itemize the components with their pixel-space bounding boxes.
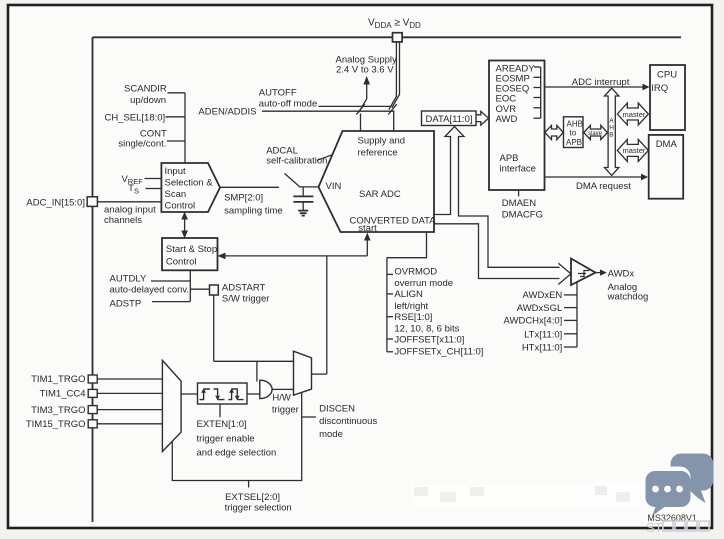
- svg-text:Control: Control: [165, 201, 196, 212]
- svg-text:trigger selection: trigger selection: [225, 503, 292, 514]
- svg-text:AWDxSGL: AWDxSGL: [517, 303, 563, 314]
- svg-text:mode: mode: [319, 429, 343, 440]
- svg-text:Start & Stop: Start & Stop: [166, 244, 217, 255]
- svg-text:DMA: DMA: [656, 139, 678, 150]
- svg-text:left/right: left/right: [394, 301, 428, 312]
- svg-text:AWDCHx[4:0]: AWDCHx[4:0]: [504, 316, 563, 327]
- svg-text:ADSTP: ADSTP: [110, 298, 142, 309]
- svg-text:Selection &: Selection &: [165, 178, 214, 189]
- svg-text:JOFFSETx_CH[11:0]: JOFFSETx_CH[11:0]: [394, 347, 483, 358]
- svg-text:AWD: AWD: [496, 114, 518, 125]
- svg-text:single/cont.: single/cont.: [118, 138, 166, 149]
- svg-text:channels: channels: [104, 215, 142, 226]
- svg-text:SMP[2:0]: SMP[2:0]: [224, 192, 263, 203]
- svg-text:auto-delayed conv.: auto-delayed conv.: [110, 284, 190, 295]
- svg-text:TIM1_CC4: TIM1_CC4: [40, 389, 86, 400]
- svg-text:AUTOFF: AUTOFF: [259, 87, 297, 98]
- svg-text:start: start: [358, 223, 377, 234]
- svg-text:and edge selection: and edge selection: [197, 448, 277, 459]
- svg-text:ST: ST: [646, 520, 663, 535]
- svg-text:Control: Control: [166, 257, 197, 268]
- svg-text:TIM3_TRGO: TIM3_TRGO: [31, 405, 85, 416]
- svg-text:OVRMOD: OVRMOD: [394, 267, 437, 278]
- svg-text:JOFFSET[x11:0]: JOFFSET[x11:0]: [394, 335, 464, 346]
- svg-text:DMAEN: DMAEN: [502, 198, 536, 209]
- svg-text:TIM15_TRGO: TIM15_TRGO: [26, 419, 86, 430]
- svg-text:H/W: H/W: [272, 393, 291, 404]
- svg-text:IRQ: IRQ: [651, 83, 668, 94]
- svg-text:DMACFG: DMACFG: [502, 210, 543, 221]
- svg-text:A: A: [609, 118, 614, 125]
- svg-text:VIN: VIN: [326, 181, 342, 192]
- svg-text:interface: interface: [500, 164, 536, 175]
- svg-text:AUTDLY: AUTDLY: [110, 273, 147, 284]
- svg-text:LTx[11:0]: LTx[11:0]: [524, 329, 562, 340]
- svg-text:overrun mode: overrun mode: [394, 278, 453, 289]
- svg-text:APB: APB: [566, 138, 582, 147]
- svg-text:AWDxEN: AWDxEN: [523, 290, 563, 301]
- svg-text:ALIGN: ALIGN: [394, 289, 423, 300]
- svg-text:watchdog: watchdog: [607, 292, 649, 303]
- svg-text:S/W trigger: S/W trigger: [222, 293, 270, 304]
- svg-text:Scan: Scan: [165, 189, 187, 200]
- svg-text:EXTSEL[2:0]: EXTSEL[2:0]: [225, 492, 280, 503]
- svg-text:12, 10, 8, 6 bits: 12, 10, 8, 6 bits: [394, 324, 459, 335]
- svg-text:discontinuous: discontinuous: [319, 416, 377, 427]
- svg-text:CPU: CPU: [657, 69, 677, 80]
- svg-text:AHB: AHB: [567, 120, 583, 129]
- svg-text:trigger enable: trigger enable: [197, 433, 255, 444]
- svg-text:ADC interrupt: ADC interrupt: [572, 77, 630, 88]
- svg-text:DISCEN: DISCEN: [319, 403, 355, 414]
- svg-text:DATA[11:0]: DATA[11:0]: [426, 114, 473, 125]
- svg-text:auto-off mode: auto-off mode: [259, 99, 317, 110]
- svg-text:RSE[1:0]: RSE[1:0]: [394, 312, 432, 323]
- svg-text:TIM1_TRGO: TIM1_TRGO: [31, 374, 85, 385]
- svg-text:slave: slave: [588, 131, 603, 137]
- svg-text:master: master: [623, 146, 646, 155]
- svg-text:Supply and: Supply and: [358, 136, 406, 147]
- svg-text:EXTEN[1:0]: EXTEN[1:0]: [197, 419, 247, 430]
- svg-text:ADC_IN[15:0]: ADC_IN[15:0]: [26, 197, 85, 208]
- svg-text:sampling time: sampling time: [224, 205, 283, 216]
- svg-text:trigger: trigger: [272, 404, 299, 415]
- svg-text:to: to: [570, 129, 577, 138]
- svg-text:Input: Input: [165, 166, 186, 177]
- svg-text:HTx[11:0]: HTx[11:0]: [522, 343, 562, 354]
- svg-text:B: B: [609, 132, 613, 139]
- svg-text:master: master: [623, 110, 646, 119]
- svg-text:reference: reference: [358, 148, 398, 159]
- svg-text:ADEN/ADDIS: ADEN/ADDIS: [198, 107, 256, 118]
- svg-text:2.4 V to 3.6 V: 2.4 V to 3.6 V: [336, 65, 394, 76]
- svg-text:DMA request: DMA request: [576, 181, 631, 192]
- svg-text:SCANDIR: SCANDIR: [124, 83, 167, 94]
- svg-text:SAR ADC: SAR ADC: [359, 189, 401, 200]
- svg-text:H: H: [609, 125, 614, 132]
- svg-text:self-calibration: self-calibration: [266, 156, 327, 167]
- svg-text:AWDx: AWDx: [608, 268, 635, 279]
- svg-text:CH_SEL[18:0]: CH_SEL[18:0]: [104, 112, 165, 123]
- svg-text:up/down: up/down: [130, 95, 166, 106]
- svg-text:analog input: analog input: [104, 204, 156, 215]
- svg-text:ADSTART: ADSTART: [222, 283, 266, 294]
